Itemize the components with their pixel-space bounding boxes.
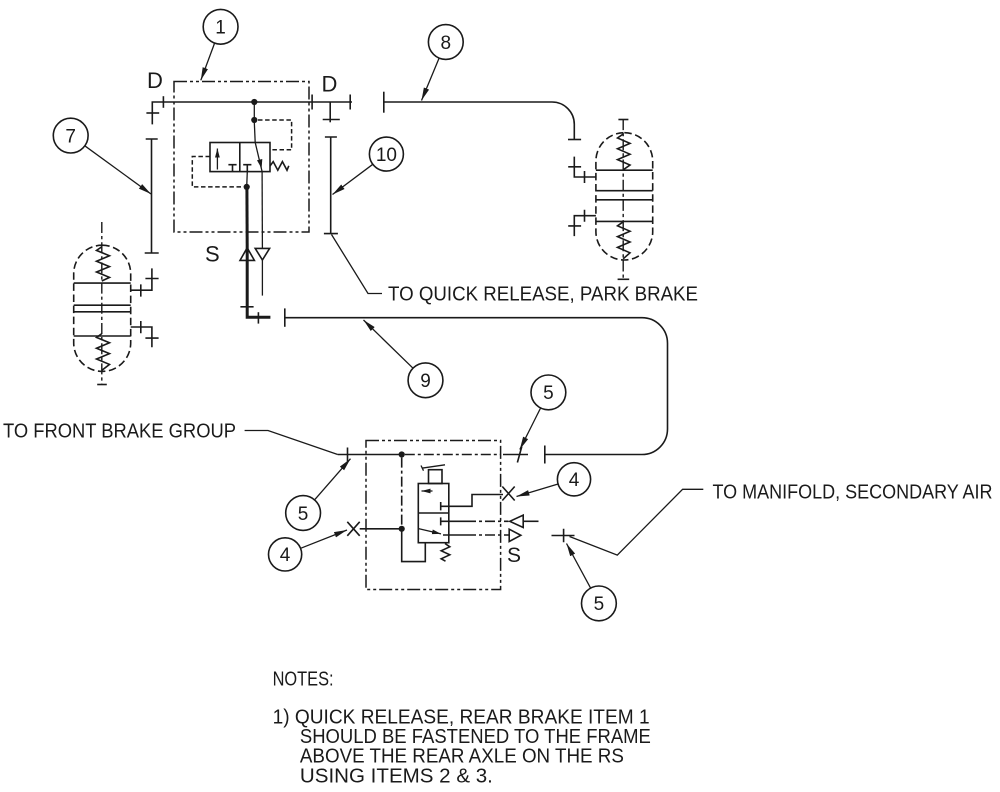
svg-text:5: 5 xyxy=(298,504,309,525)
balloon 7 xyxy=(53,118,151,194)
valve V1 return spring xyxy=(270,162,289,171)
pipe item 8 to rear brake chamber xyxy=(384,102,575,140)
valve V1 right position blocked port T xyxy=(243,165,251,172)
fitting tick on pipe at box right edge xyxy=(311,95,313,110)
V2 actuator cap xyxy=(429,470,443,484)
exhaust wire from valve right port down xyxy=(261,172,263,249)
fitting cross on supply elbow xyxy=(257,312,259,323)
svg-text:S: S xyxy=(205,242,220,267)
BC2 top spring xyxy=(618,134,631,170)
wire phantom continuation through box xyxy=(405,454,501,456)
relay valve V2 body xyxy=(418,484,449,543)
svg-text:USING ITEMS 2 & 3.: USING ITEMS 2 & 3. xyxy=(300,764,493,787)
svg-text:TO FRONT BRAKE GROUP: TO FRONT BRAKE GROUP xyxy=(3,420,236,442)
wire: top delivery pipe through valve box xyxy=(152,102,352,124)
BC2 upper port cross ticks xyxy=(568,167,584,183)
BC1 lower port cross ticks xyxy=(141,321,159,338)
svg-text:4: 4 xyxy=(569,470,580,491)
right D port stub xyxy=(329,102,331,122)
V2 port T1 with line to X fitting xyxy=(441,495,503,511)
valve V1 left position flow arrow (up) xyxy=(216,149,218,170)
balloon 5 left xyxy=(286,459,351,531)
BC2 centerline xyxy=(622,119,624,279)
check valve triangle pointing left xyxy=(510,515,523,527)
fitting cross at pipe entry xyxy=(347,448,349,462)
BC2 lower port cross ticks xyxy=(568,210,584,226)
svg-text:TO MANIFOLD, SECONDARY AIR: TO MANIFOLD, SECONDARY AIR xyxy=(713,481,993,504)
V2 actuator lever xyxy=(421,465,445,471)
check valve triangle (up) on supply xyxy=(240,248,254,261)
wire from pilot node into valve top port xyxy=(253,122,256,143)
balloon 8 xyxy=(422,25,464,101)
balloon 4 right xyxy=(517,463,591,497)
pipe 8 end tick xyxy=(568,139,581,141)
BC1 divider 2 xyxy=(74,304,131,306)
BC2 divider 3 xyxy=(596,199,653,201)
wire phantom T2 to check valve xyxy=(466,520,509,522)
svg-text:8: 8 xyxy=(441,33,452,54)
balloon 1 xyxy=(201,9,238,80)
BC1 divider 3 xyxy=(74,311,131,313)
wire from V2 right port xyxy=(443,534,466,536)
left spring brake chamber BC1 outline xyxy=(74,245,131,371)
right spring brake chamber BC2 outline xyxy=(596,133,653,260)
wire right of left-triangle xyxy=(523,520,538,522)
supply stub pipe with fitting cross xyxy=(552,529,575,542)
valve V1 body (3/2 valve, two position) xyxy=(210,143,270,172)
fitting cross on left D stub xyxy=(146,112,159,114)
leader to quick release park brake note xyxy=(332,235,383,294)
svg-text:4: 4 xyxy=(280,545,291,566)
svg-text:NOTES:: NOTES: xyxy=(273,668,334,691)
BC1 divider 4 xyxy=(74,335,131,337)
fitting X left (item 4) xyxy=(347,522,359,536)
svg-text:D: D xyxy=(147,68,163,93)
pipe 9 left end bar xyxy=(284,308,286,326)
fitting X right (item 4) xyxy=(502,487,514,501)
svg-text:5: 5 xyxy=(543,383,554,404)
fitting tick at pipe right end xyxy=(349,95,351,110)
V2 upper flow arrow (left) xyxy=(422,490,433,492)
balloon 5 top xyxy=(520,375,566,450)
valve V1 right position diagonal flow path with arrow xyxy=(255,143,262,172)
BC1 bottom spring xyxy=(97,334,110,371)
pipe item 9 long run with corner curves xyxy=(285,318,668,455)
BC1 lower port elbow xyxy=(131,327,152,347)
BC1 upper port cross ticks xyxy=(141,279,159,297)
leader from front brake group label to pipe xyxy=(245,431,338,455)
balloon 4 left xyxy=(269,530,348,571)
node: junction dot left xyxy=(399,526,405,532)
svg-text:9: 9 xyxy=(420,371,431,392)
svg-text:S: S xyxy=(507,544,521,567)
quick release valve assembly U1 (item 1) phantom enclosure box xyxy=(174,82,309,233)
BC1 centerline xyxy=(101,222,103,385)
valve V1 position divider xyxy=(239,143,241,172)
fitting tick on pipe left xyxy=(162,96,164,108)
svg-text:7: 7 xyxy=(65,126,76,147)
pilot line (dashed) right loop to valve spring side xyxy=(258,120,292,150)
exhaust vent triangle (down) xyxy=(255,248,269,260)
svg-text:5: 5 xyxy=(594,594,605,615)
pipe 9 bottom end bar xyxy=(544,446,546,464)
hose item 7 (vertical line with end ticks) xyxy=(145,139,159,253)
balloon 5 bottom xyxy=(567,544,617,621)
supply line S below triangle with elbow xyxy=(247,260,270,317)
svg-text:TO QUICK RELEASE, PARK BRA: TO QUICK RELEASE, PARK BRAKE xyxy=(388,283,698,306)
hose break tick (slanted) xyxy=(517,447,521,463)
wire from pipe to pilot node xyxy=(253,102,255,120)
exhaust pipe below vent xyxy=(261,260,263,296)
V2 body divider xyxy=(418,512,449,514)
leader to manifold label xyxy=(570,489,704,555)
balloon 10 xyxy=(333,137,404,194)
wire phantom to supply triangle xyxy=(466,534,509,536)
wire: supply pipe into relay box xyxy=(338,454,402,456)
BC1 top spring xyxy=(97,247,110,281)
node: pilot junction dot xyxy=(251,117,257,123)
BC2 divider 4 xyxy=(596,220,653,222)
wire stub outside box right xyxy=(503,454,528,456)
BC1 upper port elbow xyxy=(131,268,152,290)
supply line S (thick) down to check valve xyxy=(245,187,248,248)
relay valve assembly U2 phantom enclosure box xyxy=(366,441,501,590)
node: junction dot top xyxy=(399,451,405,457)
wire from left node down and around to valve bottom xyxy=(402,529,426,562)
V2 bottom diagonal flow arrow xyxy=(419,529,442,534)
node: junction dot on top pipe xyxy=(251,99,257,105)
balloon 9 xyxy=(364,320,443,398)
node: supply junction dot xyxy=(244,184,250,190)
pipe 8 end bar xyxy=(383,92,385,113)
valve V1 left position blocked port T xyxy=(228,165,236,172)
BC2 lower port elbow xyxy=(574,216,596,236)
BC1 divider 1 xyxy=(74,282,131,284)
supply triangle pointing right xyxy=(509,529,521,541)
BC2 divider 1 xyxy=(596,169,653,171)
pilot line (dashed) left loop to supply node xyxy=(192,157,243,187)
svg-text:D: D xyxy=(322,72,338,97)
svg-text:1: 1 xyxy=(215,18,226,39)
V2 return spring xyxy=(441,544,450,562)
svg-text:10: 10 xyxy=(376,145,397,166)
wire phantom vertical between nodes xyxy=(401,458,403,526)
wire from X to node xyxy=(360,528,402,530)
BC2 divider 2 xyxy=(596,190,653,192)
V2 port T2 xyxy=(441,517,466,525)
fitting cross on supply line xyxy=(240,306,253,308)
hose item 10 (vertical line with end ticks) xyxy=(324,137,338,234)
wire valve bottom port to supply node xyxy=(246,172,249,187)
fitting cross on right D stub xyxy=(323,119,340,121)
BC2 bottom spring xyxy=(618,222,631,259)
BC2 upper port elbow xyxy=(574,157,596,177)
